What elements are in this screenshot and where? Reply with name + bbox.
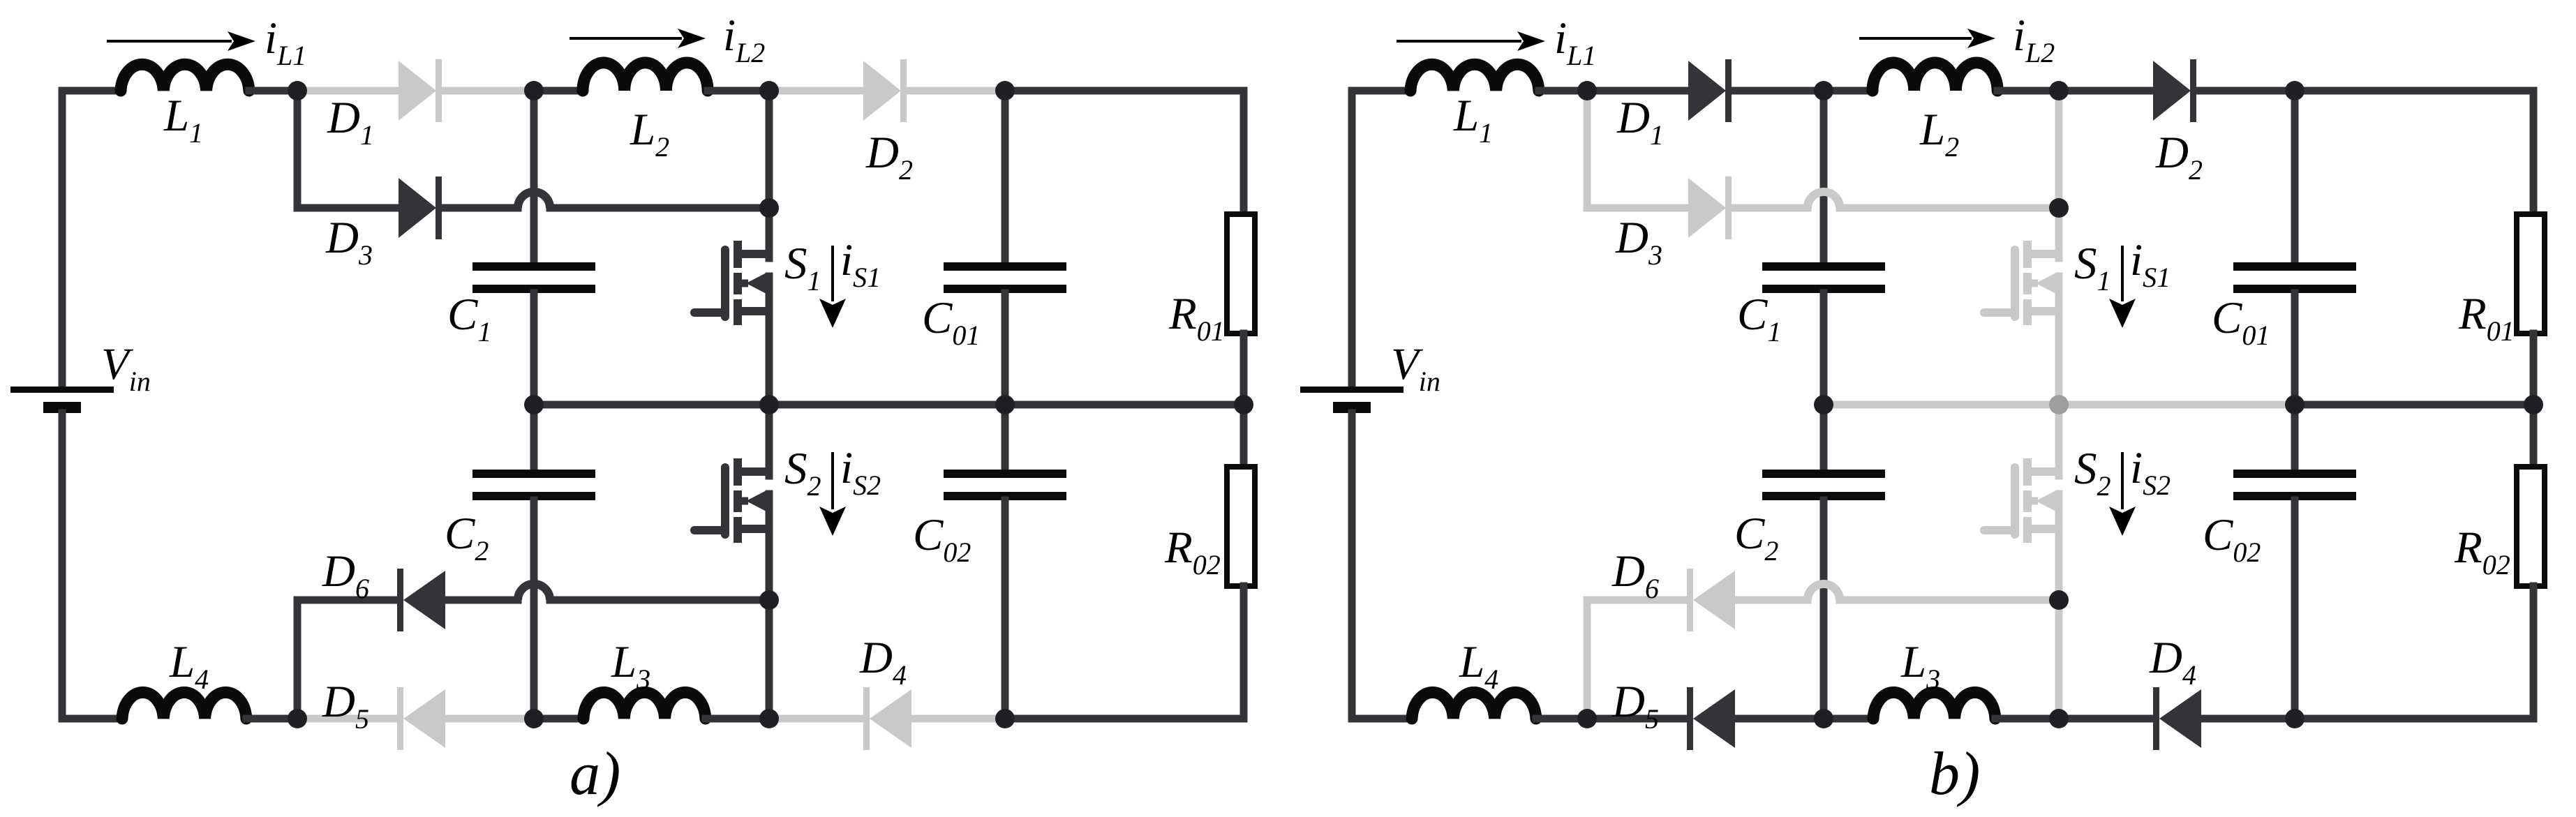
node b (2950,130) <box>2049 81 2069 100</box>
inductor L2 a <box>583 63 708 91</box>
node b (3288,1030) <box>2285 709 2305 728</box>
wire a D2 anode lead <box>769 87 863 95</box>
resistor R01 a <box>1227 214 1255 333</box>
wire a D3 branch left <box>297 91 399 208</box>
wire b C1 bottom lead <box>1820 293 1828 405</box>
node b (2274,1030) <box>1577 709 1597 728</box>
wire a D6 lead <box>445 597 518 604</box>
inductor L3 b <box>1873 692 1995 719</box>
wire b D3 branch left <box>1587 91 1688 208</box>
wire b bottom left <box>1352 715 1412 723</box>
wire a top left <box>62 87 121 95</box>
wire a D6 branch left <box>297 600 397 719</box>
wire b D5 cathode lead <box>1587 715 1687 723</box>
wire a bottom right <box>1005 715 1244 723</box>
wire b C01 top lead <box>2291 91 2299 263</box>
wire b L3 to node <box>1995 715 2059 723</box>
current arrow iS1 a <box>819 246 846 328</box>
wire a R01 bottom lead <box>1240 333 1248 405</box>
wire a L1 to node A <box>249 87 297 95</box>
capacitor C02 a <box>944 470 1066 500</box>
current arrow iL2 b <box>1859 29 1995 48</box>
wire a mid bus right <box>1005 401 1244 409</box>
node a (1102,860) <box>759 590 779 610</box>
wire a R02 bottom lead <box>1240 586 1248 719</box>
diode D1 a <box>399 59 442 122</box>
wire a top right <box>1005 87 1244 95</box>
node b (2613,1030) <box>1814 709 1833 728</box>
wire b C1 top lead <box>1820 91 1828 263</box>
transistor S1 a <box>694 241 769 325</box>
wire a S1 drain column <box>766 91 773 208</box>
wire a C01 bottom lead <box>1002 293 1009 405</box>
wire b C02 top lead <box>2291 405 2299 470</box>
resistor R02 a <box>1227 467 1255 586</box>
diode D3 a <box>399 177 442 239</box>
resistor R01 b <box>2517 214 2545 333</box>
inductor L1 a <box>121 64 249 91</box>
node b (2950,298) <box>2049 198 2069 218</box>
svg-text:b): b) <box>1929 740 1980 808</box>
diode D4 b <box>2153 687 2201 750</box>
wire a D4 anode lead <box>909 715 1005 723</box>
wire b D4 cathode lead <box>2059 715 2150 723</box>
wire a D1 cathode lead <box>442 87 534 95</box>
wire hop a D3 over C1 <box>518 192 550 208</box>
wire a S2 drain stub <box>766 405 773 476</box>
wire a D4 cathode lead <box>769 715 861 723</box>
wire b mid bus right <box>2295 401 2533 409</box>
wire b D2 anode lead <box>2059 87 2153 95</box>
wire a bottom left <box>62 715 122 723</box>
wire b mid bus left <box>1824 401 2295 409</box>
wire b D3 cathode lead <box>1732 204 1808 212</box>
wire b R02 top lead <box>2530 405 2538 467</box>
wire b S1 drain column <box>2055 91 2063 208</box>
svg-text:a): a) <box>569 740 620 808</box>
wire a R01 top lead <box>1240 91 1248 214</box>
wire b L2 to node S <box>1997 87 2059 95</box>
inductor L1 b <box>1410 64 1539 91</box>
diode D5 b <box>1687 687 1735 750</box>
wire b node B to L2 <box>1824 87 1873 95</box>
node a (1102,130) <box>759 81 779 100</box>
transistor S2 a <box>694 458 769 543</box>
wire b R01 bottom lead <box>2530 333 2538 405</box>
wire b S1 source lead <box>2055 276 2063 405</box>
diode D3 b <box>1688 177 1732 239</box>
node a (765,1030) <box>524 709 544 728</box>
wire b R01 top lead <box>2530 91 2538 214</box>
node a (426,1030) <box>288 709 307 728</box>
wire b L1 to node A <box>1539 87 1587 95</box>
current arrow iS2 a <box>819 452 846 536</box>
node b (2950,1030) <box>2049 709 2069 728</box>
diode D2 a <box>863 59 907 122</box>
wire b D5 anode lead <box>1735 715 1824 723</box>
wire b D6 branch left <box>1587 600 1687 719</box>
wire a C01 top lead <box>1002 91 1009 263</box>
wire a C02 top lead <box>1002 405 1009 470</box>
wire b D4 anode lead <box>2198 715 2295 723</box>
wire a L4 to node <box>246 715 297 723</box>
node b (3288,580) <box>2285 395 2305 414</box>
wire a S2 source lead <box>766 494 773 719</box>
wire b D1 cathode lead <box>1732 87 1824 95</box>
wire a input bottom <box>59 413 66 719</box>
wire b D6 lead <box>1735 597 1808 604</box>
wire b D3 branch right <box>1840 204 2059 212</box>
wire b C2 bottom lead <box>1820 500 1828 719</box>
wire b C01 bottom lead <box>2291 293 2299 405</box>
wire a C02 bottom lead <box>1002 500 1009 719</box>
inductor L2 b <box>1873 63 1997 91</box>
wire a D6 branch right <box>550 597 769 604</box>
wire a node B to L2 <box>534 87 583 95</box>
wire b S1 drain stub <box>2055 208 2063 258</box>
wire a C2 bottom lead <box>530 500 538 719</box>
wire a D5 cathode lead <box>297 715 397 723</box>
wire hop b D6 over C2 <box>1808 584 1840 600</box>
current arrow iL2 a <box>569 29 706 48</box>
wire b top right <box>2295 87 2533 95</box>
wire b S2 source lead <box>2055 494 2063 719</box>
wire a C1 bottom lead <box>530 293 538 405</box>
wire a S1 drain stub <box>766 208 773 258</box>
wire b C02 bottom lead <box>2291 500 2299 719</box>
resistor R02 b <box>2517 467 2545 586</box>
current arrow iL1 a <box>107 31 255 51</box>
capacitor C01 a <box>944 262 1066 293</box>
node b (2950,580) <box>2049 395 2069 414</box>
wire hop a D6 over C2 <box>518 584 550 600</box>
diode D6 b <box>1687 569 1735 631</box>
node b (2274,130) <box>1577 81 1597 100</box>
inductor L3 a <box>583 692 706 719</box>
wire b S2 drain stub <box>2055 405 2063 476</box>
current arrow iL1 b <box>1397 31 1545 51</box>
node b (3630,580) <box>2524 395 2543 414</box>
node a (1440,580) <box>995 395 1015 414</box>
node a (765,580) <box>524 395 544 414</box>
wire a D1 anode lead <box>297 87 399 95</box>
transistor S2 b <box>1984 458 2059 543</box>
wire a D3 branch right <box>550 204 769 212</box>
transistor S1 b <box>1984 241 2059 325</box>
node a (1102,1030) <box>759 709 779 728</box>
wire a mid bus left <box>534 401 1005 409</box>
wire a L3 to node <box>706 715 769 723</box>
battery Vin b <box>1300 387 1404 413</box>
wire a D3 cathode lead <box>442 204 518 212</box>
wire b D2 cathode lead <box>2196 87 2295 95</box>
node a (1440,130) <box>995 81 1015 100</box>
wire b C2 top lead <box>1820 405 1828 470</box>
wire b node to L3 <box>1824 715 1873 723</box>
wire b D1 anode lead <box>1587 87 1688 95</box>
node b (2613,130) <box>1814 81 1833 100</box>
wire a R02 top lead <box>1240 405 1248 467</box>
capacitor C02 b <box>2233 470 2356 500</box>
wire a S1 source lead <box>766 276 773 405</box>
node b (3288,130) <box>2285 81 2305 100</box>
current arrow iS1 b <box>2109 246 2136 328</box>
diode D2 b <box>2153 59 2196 122</box>
wire b R02 bottom lead <box>2530 586 2538 719</box>
wire b D6 branch right <box>1840 597 2059 604</box>
diode D6 a <box>397 569 445 631</box>
capacitor C2 b <box>1762 470 1885 500</box>
node a (1440,1030) <box>995 709 1015 728</box>
wire a node to L3 <box>534 715 583 723</box>
wire b top left <box>1352 87 1410 95</box>
diode D4 a <box>863 687 911 750</box>
node a (426,130) <box>288 81 307 100</box>
wire hop b D3 over C1 <box>1808 192 1840 208</box>
node a (765,130) <box>524 81 544 100</box>
node a (1102,580) <box>759 395 779 414</box>
capacitor C1 b <box>1762 262 1885 293</box>
node b (2950,860) <box>2049 590 2069 610</box>
wire a D5 anode lead <box>445 715 534 723</box>
node a (1102,298) <box>759 198 779 218</box>
battery Vin a <box>10 387 114 413</box>
diode D1 b <box>1688 59 1732 122</box>
wire b input top <box>1348 91 1356 387</box>
wire a L2 to node S <box>708 87 769 95</box>
capacitor C01 b <box>2233 262 2356 293</box>
wire a input top <box>59 91 66 387</box>
inductor L4 a <box>122 692 246 719</box>
wire a D2 cathode lead <box>907 87 1005 95</box>
node b (2613,580) <box>1814 395 1833 414</box>
wire a C1 top lead <box>530 91 538 263</box>
current arrow iS2 b <box>2109 452 2136 536</box>
capacitor C2 a <box>472 470 595 500</box>
wire b bottom right <box>2295 715 2533 723</box>
wire a C2 top lead <box>530 405 538 470</box>
wire b L4 to node <box>1536 715 1587 723</box>
wire b input bottom <box>1348 413 1356 719</box>
node a (1782,580) <box>1234 395 1253 414</box>
inductor L4 b <box>1412 692 1536 719</box>
capacitor C1 a <box>472 262 595 293</box>
diode D5 a <box>397 687 445 750</box>
